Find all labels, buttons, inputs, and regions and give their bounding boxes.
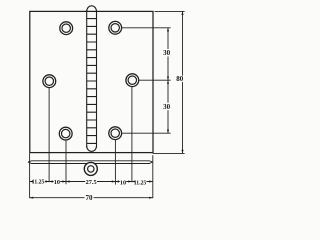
arrows bottom row at col2 [62, 180, 69, 182]
arrows 30 middle [167, 77, 169, 84]
arrow 30-bottom down [167, 130, 169, 134]
screw hole left-middle [43, 75, 56, 88]
barrel knuckle rungs [87, 19, 97, 144]
screw hole right-top [109, 21, 122, 34]
svg-text:11.25: 11.25 [134, 180, 147, 187]
svg-text:80: 80 [176, 75, 184, 83]
arrows bottom row at col1 [46, 180, 53, 182]
leader line col1 [48, 88, 50, 182]
arrow 80 bottom [181, 150, 183, 154]
arrow 80 top [181, 11, 183, 15]
arrow 30-top up [167, 28, 169, 32]
dimension line 30 lower segment [167, 80, 169, 133]
80 extension line bottom [153, 152, 185, 154]
svg-text:11.25: 11.25 [32, 179, 45, 186]
arrows bottom row at col3 [112, 180, 119, 182]
arrows bottom row at col4 [128, 180, 135, 182]
arrows 70 line [30, 197, 153, 199]
leader line col3 [114, 140, 116, 185]
svg-text:30: 30 [163, 49, 171, 57]
leader line col4 [131, 87, 133, 182]
bottom dimension row line [30, 181, 153, 183]
dimension line 80 [182, 11, 184, 153]
barrel left edge [86, 10, 88, 148]
extension line from right-bottom hole [122, 132, 171, 134]
extension line from right-middle hole [139, 79, 171, 81]
screw hole right-bottom [109, 127, 122, 140]
70 dimension line [30, 197, 153, 199]
svg-text:10: 10 [54, 179, 60, 186]
svg-text:27.5: 27.5 [86, 179, 97, 186]
svg-text:10: 10 [120, 179, 126, 186]
right extension line down [152, 155, 154, 198]
screw hole left-top [60, 22, 73, 35]
barrel right edge [96, 10, 98, 148]
arrows bottom row at left edge [30, 180, 34, 182]
barrel top dome [87, 6, 97, 12]
leader line col2 [65, 140, 67, 184]
dimension line 30 upper segment [167, 28, 169, 80]
80 extension line top [155, 10, 185, 12]
svg-text:30: 30 [163, 103, 171, 111]
edge view leaf bar bottom line [28, 162, 153, 164]
arrow bottom row at right edge [149, 180, 153, 182]
extension line from right-top hole [122, 27, 171, 29]
left extension line down [29, 153, 31, 198]
svg-text:70: 70 [86, 194, 94, 202]
hinge leaf outline (front view) [30, 11, 153, 152]
barrel bottom dome [87, 146, 97, 151]
edge view barrel circle [84, 162, 97, 175]
screw hole left-bottom [59, 127, 72, 140]
screw hole right-middle [126, 74, 139, 87]
edge view leaf bar top line [28, 161, 153, 162]
